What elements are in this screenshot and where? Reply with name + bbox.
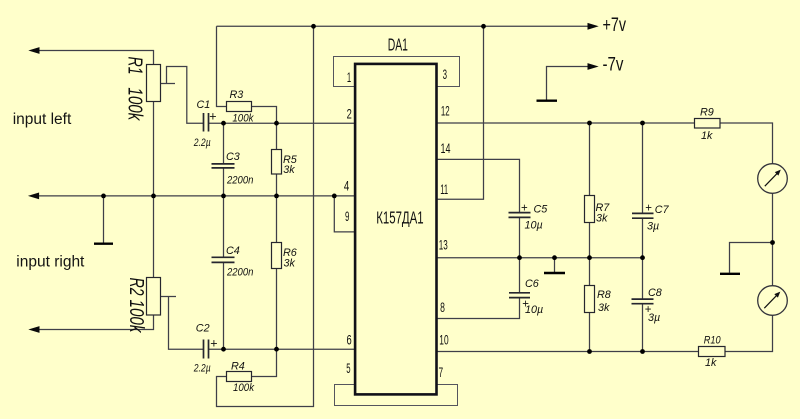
junction node bus2-R5R6 [274,194,279,199]
wire C6 column and pin 8 rung [436,258,520,319]
resistor R5 [272,150,282,175]
svg-text:3µ: 3µ [648,312,660,324]
svg-text:3µ: 3µ [647,221,659,233]
arrow -7v [588,63,599,70]
svg-text:C1: C1 [197,99,211,111]
svg-text:2.2µ: 2.2µ [193,362,211,374]
capacitor C7 plates [632,213,654,218]
wire pin 10 rung to R10 and meter2 [436,316,773,352]
capacitor C5 plates [509,213,531,218]
capacitor C1 plates [204,113,209,132]
potentiometer R1 [147,65,161,102]
wire C5 bottom stem [519,218,521,258]
wire C7 leads [642,123,644,258]
resistor R10 [699,347,726,357]
svg-text:+: + [521,203,528,215]
meter M1 [758,164,788,194]
svg-text:3k: 3k [596,212,608,224]
svg-text:C7: C7 [655,204,670,216]
wire C1 out to pin 2 [209,122,357,124]
arrow input right bottom [28,326,39,333]
wire C4 column [223,196,225,349]
svg-text:9: 9 [345,210,349,225]
svg-text:13: 13 [439,239,448,254]
svg-text:100k: 100k [232,113,254,125]
ground at pin13 bus [544,272,565,274]
wire C2 out to pin 6 [209,348,357,350]
junction node bus2-pin9 [332,194,337,199]
op-amp IC DA1 body [355,64,436,395]
svg-text:+: + [209,109,216,123]
potentiometer R2 [147,278,161,316]
wire R3 left riser [217,26,227,106]
svg-text:12: 12 [441,105,450,120]
wire ground2 stem [554,258,556,272]
junction node C1-C3 [221,121,226,126]
wire R3 right lead [252,107,277,124]
svg-text:11: 11 [440,183,448,198]
wire meter link [772,194,774,286]
wire R2 wiper tap to C2 [161,297,204,350]
svg-text:DA1: DA1 [388,36,408,55]
svg-text:1k: 1k [701,130,713,142]
IC bottom tab pins 5 7 [335,385,458,406]
arrow bus2 left [28,193,39,200]
svg-text:3k: 3k [284,257,296,269]
svg-text:input left: input left [13,111,72,128]
svg-text:-7v: -7v [603,53,624,75]
svg-text:8: 8 [440,301,445,315]
svg-text:5: 5 [346,362,350,377]
junction node pin10-R8 [587,349,592,354]
wire C3 column [223,123,225,196]
svg-text:2200n: 2200n [226,267,254,279]
svg-text:1k: 1k [705,357,717,369]
wire R1 bottom lead [153,102,155,196]
svg-text:10µ: 10µ [525,220,543,232]
svg-text:C8: C8 [648,287,662,299]
resistor R3 [227,102,252,112]
svg-text:6: 6 [347,333,352,348]
junction node bus2-C3C4 [221,194,226,199]
wire C8 leads [642,258,644,352]
svg-text:100k: 100k [233,383,255,395]
IC top tab pins 1 3 [334,57,460,87]
ground at meters [720,273,740,275]
wire R1 wiper tap to C1 [161,67,204,124]
junction node pin10-C8 [640,349,645,354]
arrow input left [28,47,39,54]
capacitor C4 plates [212,257,235,262]
junction node bus2-R2 [151,194,156,199]
junction node bus2-ground [101,194,106,199]
svg-text:К157ДА1: К157ДА1 [376,209,423,228]
wire input left arrow to R1 [39,51,154,65]
junction node pin6-C4 [221,347,226,352]
wire top +7v bus [217,25,590,27]
wire R6 leads [276,196,278,349]
svg-text:C4: C4 [226,245,240,257]
resistor R8 [585,286,595,313]
junction node pin13-C7C8 [640,255,645,260]
resistor R6 [272,243,282,269]
wire -7v elbow [547,67,590,100]
resistor R7 [585,196,595,223]
wire input bus 2 to pin 4 [39,195,357,197]
svg-text:10µ: 10µ [525,304,543,316]
junction node R3-R5 [274,121,279,126]
capacitor C8 plates [632,299,654,304]
svg-text:R10: R10 [704,335,721,347]
meter M2 [758,286,788,316]
junction node meter-ground [770,240,775,245]
svg-text:R3: R3 [230,89,244,101]
wire pin 13 bus [436,257,643,259]
junction node pin13-R7R8 [587,255,592,260]
wire R7 leads [589,123,591,258]
resistor R4 [227,372,252,382]
svg-text:7: 7 [439,366,444,381]
svg-text:100k: 100k [125,300,148,334]
wire ground3 branch [730,243,773,273]
ground at input bus [94,242,113,244]
svg-text:2.2µ: 2.2µ [193,137,211,149]
svg-text:+7v: +7v [603,14,627,35]
wire long riser to R4 left [217,26,314,406]
resistor R9 [695,119,721,129]
capacitor C2 plates [204,340,209,359]
svg-text:4: 4 [344,178,350,194]
svg-text:C3: C3 [226,151,240,163]
svg-text:3: 3 [443,68,447,83]
svg-text:R8: R8 [597,289,611,301]
svg-text:R9: R9 [700,106,714,118]
svg-text:14: 14 [441,142,451,156]
wire R5 leads [276,123,278,196]
junction node pin13-ground [552,255,557,260]
svg-text:C2: C2 [196,322,210,334]
junction node pin12-C7 [640,121,645,126]
arrow +7v [588,23,599,30]
svg-text:10: 10 [439,334,448,348]
svg-text:3k: 3k [283,164,295,176]
capacitor C3 plates [212,164,235,168]
wire pin11 riser [436,26,484,199]
wire R8 leads [589,258,591,352]
junction node pin6-R6R4 [274,347,279,352]
svg-text:2: 2 [347,107,352,122]
wire R2 top lead [153,196,155,278]
svg-text:2200n: 2200n [226,175,254,187]
svg-text:C5: C5 [534,203,549,215]
junction node pin12-R7 [587,121,592,126]
svg-text:100k: 100k [124,87,147,121]
wire pin 14 rung to C5 [436,159,520,212]
wire pin 12 rung to R9 and meter1 [436,123,773,164]
junction node top bus / pin11 riser [481,24,486,29]
wire pin 9 branch [334,196,356,232]
svg-text:1: 1 [347,71,351,86]
wire ground1 stem [103,196,105,243]
svg-text:R2: R2 [125,278,148,296]
svg-text:input right: input right [16,253,85,270]
svg-text:R4: R4 [231,360,245,372]
svg-text:+: + [645,202,652,214]
svg-text:+: + [210,336,217,350]
ground at -7v [537,99,558,101]
svg-text:R1: R1 [124,57,147,75]
junction node top bus / long riser [311,24,316,29]
wire R2 bottom to left arrow [39,315,154,330]
svg-text:C6: C6 [525,278,539,290]
junction node pin13-C5 [517,255,522,260]
svg-text:3k: 3k [598,302,610,314]
capacitor C6 plates [509,293,530,298]
wire R4 right lead [252,349,277,376]
